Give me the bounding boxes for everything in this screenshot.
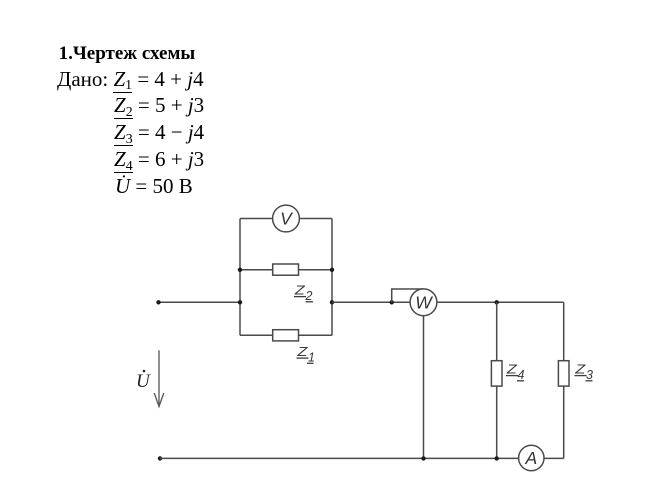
- voltage source arrow U: [154, 350, 164, 406]
- node: Z4 branch top junction: [495, 300, 499, 304]
- ammeter A: [519, 445, 544, 470]
- label Z4: [506, 361, 525, 381]
- svg-text:4: 4: [518, 368, 525, 382]
- svg-text:W: W: [415, 293, 433, 313]
- node: right rail at Z2 branch: [330, 268, 334, 272]
- impedance Z2 box: [273, 264, 299, 275]
- wire: bottom rail from ammeter to Z3 corner: [544, 457, 564, 459]
- node: left rail at main wire: [238, 300, 242, 304]
- svg-text:A: A: [524, 448, 537, 468]
- wire: voltmeter loop top right segment: [299, 218, 332, 220]
- node: left rail at Z2 branch: [238, 268, 242, 272]
- label Z2: [294, 282, 313, 302]
- given line Z4 = 6 + j3: [114, 149, 204, 170]
- svg-text:2: 2: [305, 289, 313, 303]
- wire: Z3 branch upper segment: [563, 302, 565, 360]
- wire: Z4 branch lower segment: [496, 386, 498, 458]
- wire: left input terminal to parallel block: [159, 301, 241, 303]
- label Z3: [574, 361, 593, 381]
- wire: voltmeter loop top left segment: [240, 218, 273, 220]
- given line Z2 = 5 + j3: [114, 95, 204, 116]
- wire: wattmeter voltage coil bracket: [392, 289, 424, 302]
- heading "1.Чертеж схемы": [59, 44, 196, 63]
- wire: Z1 branch left segment: [240, 334, 273, 336]
- wire: right rail of parallel block: [331, 219, 333, 336]
- given line Z3 = 4 - j4: [114, 122, 204, 143]
- wire: Z3 branch lower segment: [563, 386, 565, 458]
- wire: main wire from wattmeter to Z3 corner: [437, 301, 564, 303]
- node: Z4 branch bottom junction: [495, 456, 499, 460]
- impedance Z1 box: [273, 330, 299, 341]
- svg-text:1: 1: [308, 350, 315, 364]
- wire: Z2 branch left segment: [240, 269, 273, 271]
- svg-text:Z: Z: [294, 282, 307, 297]
- node: wattmeter voltage tap: [390, 300, 394, 304]
- label U (source voltage): [136, 370, 151, 392]
- node: right rail at main wire: [330, 300, 334, 304]
- wire: left rail of parallel block: [239, 219, 241, 336]
- svg-text:Z: Z: [574, 361, 587, 376]
- wire: Z1 branch right segment: [299, 334, 333, 336]
- svg-text:U: U: [136, 371, 151, 392]
- svg-text:3: 3: [586, 368, 593, 382]
- node: wattmeter lead junction on bottom rail: [421, 456, 425, 460]
- svg-text:Z: Z: [296, 344, 309, 359]
- wire: Z2 branch right segment: [299, 269, 333, 271]
- given line Z1 = 4 + j4: [57, 69, 204, 90]
- node: left input terminal (top): [156, 300, 160, 304]
- wire: bottom rail from left terminal to ammeter: [160, 457, 519, 459]
- wire: Z4 branch upper segment: [496, 302, 498, 360]
- wattmeter W: [410, 289, 437, 316]
- svg-text:Z: Z: [506, 361, 519, 376]
- wire: main wire from parallel block to wattmeter: [332, 301, 410, 303]
- voltmeter V: [273, 205, 300, 232]
- given line U = 50 V: [115, 176, 193, 197]
- impedance Z3 box: [558, 361, 569, 386]
- wire: wattmeter down lead to bottom rail: [423, 316, 425, 459]
- label Z1: [296, 344, 315, 364]
- node: left input terminal (bottom): [158, 456, 162, 460]
- impedance Z4 box: [491, 361, 502, 386]
